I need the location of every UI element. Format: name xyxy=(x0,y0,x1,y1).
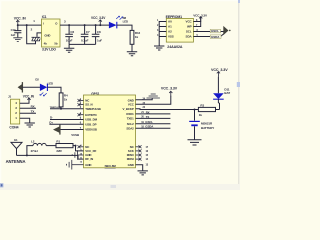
svg-text:RX: RX xyxy=(31,104,35,108)
svg-text:GND: GND xyxy=(128,163,134,167)
battery BT1 xyxy=(189,110,200,140)
svg-text:VCC_3.3V: VCC_3.3V xyxy=(211,68,228,72)
capacitor C7 xyxy=(81,25,89,44)
svg-text:SDA2: SDA2 xyxy=(126,126,134,130)
svg-text:EXTINT0: EXTINT0 xyxy=(85,113,97,117)
inductor L2 xyxy=(33,143,46,145)
svg-text:1k: 1k xyxy=(64,98,68,102)
ground below C13 xyxy=(13,38,22,42)
junction battery/V_BCKP xyxy=(194,109,196,111)
svg-text:CON4: CON4 xyxy=(9,125,18,129)
svg-text:1k: 1k xyxy=(199,113,203,117)
capacitor C6 xyxy=(65,25,73,44)
wire R12 to ground xyxy=(131,44,133,51)
svg-text:RX: RX xyxy=(146,110,150,114)
svg-text:GSDA: GSDA xyxy=(211,35,220,39)
wire diode cathode to R3 xyxy=(216,99,220,109)
pin 19 GSCL wire xyxy=(136,123,171,125)
LED D2 xyxy=(40,84,48,96)
corner dot top-right xyxy=(238,0,240,3)
svg-text:5b: 5b xyxy=(54,42,58,46)
svg-text:R3: R3 xyxy=(200,104,204,108)
svg-text:TIMEPULSE: TIMEPULSE xyxy=(50,107,62,109)
svg-text:R1: R1 xyxy=(56,139,60,143)
wire IC1 GND pin to chassis ground xyxy=(37,33,42,37)
pin 18 GSDA wire xyxy=(136,127,171,129)
junction R4/TIMEPULSE xyxy=(60,108,62,110)
wire A0-A2,VSS to ground bus xyxy=(159,22,166,46)
wire LED cathode to R12 xyxy=(117,25,132,30)
svg-text:D+: D+ xyxy=(49,121,53,125)
pin 14 NC x xyxy=(136,158,140,160)
wire antenna to RF_IN xyxy=(17,155,82,159)
capacitor C13 xyxy=(14,25,21,37)
ground below pin 13 xyxy=(138,171,148,175)
scrollbar mark bottom-middle xyxy=(111,185,117,188)
resistor R12 xyxy=(130,30,134,44)
junction antenna/bias xyxy=(26,154,28,156)
svg-text:10uF: 10uF xyxy=(66,39,73,43)
wire R1 to VCC_RF xyxy=(73,145,76,147)
svg-text:GND: GND xyxy=(85,163,91,167)
wire R4 to TIMEPULSE net xyxy=(60,107,62,109)
svg-text:C7: C7 xyxy=(86,30,90,34)
svg-text:SCL: SCL xyxy=(186,30,192,34)
antenna E1 xyxy=(11,142,22,155)
wire CON4 pin4 to VCC_IN xyxy=(20,98,29,103)
svg-text:VCC_3.3V: VCC_3.3V xyxy=(161,87,178,91)
svg-text:C8: C8 xyxy=(97,30,101,34)
scrollbar mark right-middle xyxy=(237,82,240,87)
svg-text:E1: E1 xyxy=(14,138,18,142)
wire input loop to chassis ground xyxy=(27,25,36,44)
svg-text:1uF: 1uF xyxy=(97,39,102,43)
junction VCC_3.3V flag xyxy=(99,24,101,26)
svg-text:RF_IN: RF_IN xyxy=(85,157,93,161)
svg-text:WP: WP xyxy=(187,25,192,29)
chassis ground IC1 xyxy=(32,37,41,41)
svg-text:D-: D- xyxy=(50,116,53,120)
wire WP pin 7 tied to VCC xyxy=(193,22,200,27)
wire CON4 pin1 to ground xyxy=(20,118,30,123)
wire power to diode anode xyxy=(217,77,219,94)
pin 17 NC x xyxy=(136,146,140,148)
pin 16 NC x xyxy=(136,150,140,152)
connector CON4 body xyxy=(11,99,20,124)
EEPROM U3 body xyxy=(166,18,193,42)
pin 24 wire to ground flag xyxy=(136,98,153,100)
svg-text:USB_DM: USB_DM xyxy=(85,118,97,122)
power symbol VCC_IN xyxy=(16,20,19,25)
off-page arrow left (USB) xyxy=(59,125,61,135)
wire cap ground bus xyxy=(69,43,96,45)
svg-text:ANTENNA: ANTENNA xyxy=(6,159,26,164)
svg-text:LED: LED xyxy=(123,19,128,23)
GPS module body xyxy=(84,95,136,168)
svg-text:D2: D2 xyxy=(35,77,39,81)
junction R1/VCC_RF xyxy=(75,145,77,147)
wire CON4 pin2 TX xyxy=(20,112,36,114)
resistor R4 xyxy=(59,93,63,107)
svg-text:A0: A0 xyxy=(168,20,172,24)
svg-text:22R: 22R xyxy=(56,149,62,153)
svg-text:GND: GND xyxy=(44,33,50,37)
net label GSDA xyxy=(210,35,221,39)
svg-text:SDA: SDA xyxy=(186,35,193,39)
svg-text:RXD1: RXD1 xyxy=(126,112,134,116)
resistor R3 xyxy=(198,107,215,111)
svg-text:J1: J1 xyxy=(8,95,12,99)
ground below battery xyxy=(188,140,202,145)
ground below CON4 xyxy=(25,123,35,127)
svg-text:IC1: IC1 xyxy=(42,15,47,19)
pin 20 TX wire xyxy=(136,117,171,119)
svg-text:GSCL: GSCL xyxy=(145,120,153,124)
svg-text:GSDA: GSDA xyxy=(145,125,154,129)
svg-text:4b: 4b xyxy=(44,42,48,46)
wire LED D2 to R4 xyxy=(47,87,61,93)
svg-text:1uF: 1uF xyxy=(11,33,16,37)
LED D8 xyxy=(109,16,123,28)
faint page frame xyxy=(1,1,240,190)
power symbol VCC_IN CON4 xyxy=(27,98,30,103)
svg-text:TX: TX xyxy=(146,115,150,119)
svg-text:VDDUSB: VDDUSB xyxy=(85,128,97,132)
resistor R1 xyxy=(56,144,73,148)
svg-text:SCL2: SCL2 xyxy=(127,122,134,126)
wire arrow to LED D2 xyxy=(22,86,40,88)
svg-text:TX: TX xyxy=(31,109,35,113)
svg-text:A2: A2 xyxy=(168,30,172,34)
pin 15 NC x xyxy=(136,154,140,156)
power symbol VCC_3.3V EEPROM xyxy=(199,17,202,22)
wire VCC pin 8 xyxy=(193,17,200,22)
junction VCC_IN/C13 xyxy=(17,24,19,26)
junction C7 xyxy=(84,24,86,26)
svg-text:MOSI: MOSI xyxy=(127,157,134,161)
svg-text:VSS: VSS xyxy=(168,35,174,39)
svg-text:C6: C6 xyxy=(70,30,74,34)
svg-text:L2: L2 xyxy=(31,139,35,143)
svg-text:3.3V LDO: 3.3V LDO xyxy=(42,48,56,52)
power symbol VCC_3.3V rail xyxy=(99,20,102,25)
svg-text:27nH: 27nH xyxy=(31,149,38,153)
pin 23 wire to VCC_3.3V xyxy=(136,96,171,104)
svg-text:0.1uF: 0.1uF xyxy=(81,39,89,43)
svg-text:C13: C13 xyxy=(11,28,16,32)
scrollbar mark bottom-left xyxy=(0,183,3,187)
svg-text:GSCL: GSCL xyxy=(211,29,219,33)
svg-text:V_BCKP: V_BCKP xyxy=(123,107,134,111)
harness arrow right (I2C bus off-page) xyxy=(223,26,228,35)
bottom strip xyxy=(0,184,240,190)
svg-text:VCC_IN: VCC_IN xyxy=(14,17,26,21)
junction C8 xyxy=(95,24,97,26)
net label GSCL xyxy=(210,29,220,33)
svg-text:VCC: VCC xyxy=(186,20,193,24)
svg-text:LED: LED xyxy=(48,82,53,86)
wire bias tap xyxy=(27,146,33,156)
ground below caps xyxy=(68,44,70,48)
capacitor C8 xyxy=(92,25,100,44)
svg-text:TIMEPULSE: TIMEPULSE xyxy=(85,107,101,111)
ground below R12 xyxy=(127,52,137,56)
wire VCC_IN rail to IC1 pin1 xyxy=(18,24,42,26)
junction input/EN xyxy=(26,24,28,26)
pin 13 GND wire to ground xyxy=(136,165,143,171)
junction C6 xyxy=(68,24,70,26)
svg-text:VUSB: VUSB xyxy=(71,133,79,137)
wire SCL pin 6 to harness xyxy=(193,31,224,33)
inverted ground flag above pin 24 xyxy=(147,94,160,98)
pin 21 RX wire xyxy=(136,113,171,115)
svg-text:1k: 1k xyxy=(135,35,139,39)
svg-text:BATTERY: BATTERY xyxy=(201,126,214,130)
wire 3.3V rail xyxy=(60,24,109,26)
diode D11 xyxy=(213,93,224,99)
wire CON4 pin3 RX xyxy=(20,107,36,109)
wire SDA pin 5 to harness xyxy=(193,34,224,37)
pin 22 V_BCKP long wire xyxy=(136,108,199,111)
wire L2 to R1 xyxy=(46,145,56,147)
power symbol VCC_3.3V (module) xyxy=(169,91,172,96)
svg-text:USB_DP: USB_DP xyxy=(85,122,96,126)
svg-text:BAT: BAT xyxy=(224,91,230,95)
svg-text:24AA02A: 24AA02A xyxy=(167,45,183,49)
svg-text:NEO-6M: NEO-6M xyxy=(105,164,117,168)
right edge line xyxy=(238,0,240,190)
svg-text:A1: A1 xyxy=(168,25,172,29)
power symbol VCC_3.3V battery xyxy=(217,72,220,77)
regulator IC1 body xyxy=(42,19,61,47)
ground below EEPROM address bus xyxy=(154,46,164,50)
svg-text:VCC_3.3V: VCC_3.3V xyxy=(91,16,106,20)
off-page arrow left (timepulse) xyxy=(21,82,23,92)
svg-text:TXD1: TXD1 xyxy=(127,117,134,121)
